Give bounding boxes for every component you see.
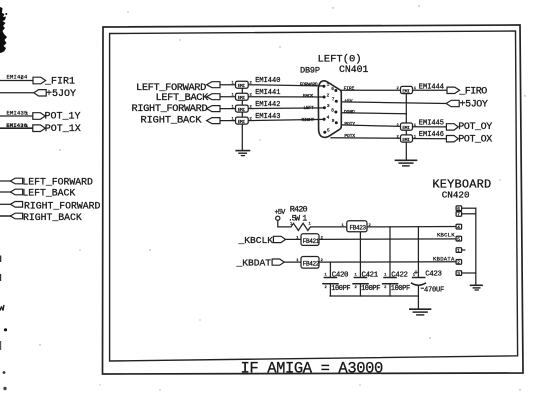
svg-text:3: 3 [327, 104, 330, 109]
svg-text:EMI: EMI [402, 137, 410, 143]
svg-text:2: 2 [325, 286, 328, 290]
svg-text:RIGHT_FORWARD: RIGHT_FORWARD [132, 103, 208, 115]
svg-text:_FIR1: _FIR1 [44, 76, 75, 87]
svg-text:POT_OX: POT_OX [458, 134, 492, 145]
svg-text:2: 2 [327, 93, 330, 98]
svg-text:EMI: EMI [402, 88, 410, 94]
svg-text:POT_OY: POT_OY [458, 122, 492, 133]
svg-text:RIGHT_BACK: RIGHT_BACK [23, 212, 82, 223]
svg-text:RIGHT_FORWARD: RIGHT_FORWARD [24, 200, 101, 211]
svg-text:RIGHT: RIGHT [302, 117, 315, 123]
svg-text:POT_1X: POT_1X [45, 124, 81, 135]
svg-text:4: 4 [327, 116, 330, 121]
svg-text:1: 1 [457, 248, 460, 254]
svg-text:POTY: POTY [344, 121, 355, 127]
svg-text:KBDATA: KBDATA [433, 255, 455, 262]
svg-text:100PF: 100PF [391, 285, 410, 293]
svg-text:LEFT: LEFT [304, 105, 315, 111]
svg-text:2: 2 [457, 260, 460, 266]
svg-text:FB422: FB422 [303, 261, 320, 268]
svg-text:8: 8 [331, 108, 334, 113]
svg-text:+5V: +5V [275, 209, 287, 217]
svg-text:FB421: FB421 [303, 238, 320, 245]
svg-text:EMI434: EMI434 [7, 73, 29, 80]
svg-text:DGND: DGND [344, 109, 355, 115]
svg-text:+5JOY: +5JOY [460, 100, 488, 111]
svg-text:w: w [0, 304, 5, 315]
svg-text:EMI: EMI [238, 107, 246, 113]
svg-text:2: 2 [355, 286, 358, 290]
svg-text:C423: C423 [425, 270, 441, 278]
svg-text:EMI435: EMI435 [7, 109, 28, 116]
svg-text:KBCLK: KBCLK [437, 232, 455, 239]
svg-text:R420: R420 [290, 205, 308, 215]
svg-text:EMI442: EMI442 [255, 101, 280, 109]
svg-text:LEFT_FORWARD: LEFT_FORWARD [22, 177, 93, 188]
svg-text:6: 6 [331, 87, 334, 92]
svg-text:1: 1 [309, 223, 312, 227]
svg-text:EMI: EMI [238, 95, 246, 101]
svg-text:_KBCLK: _KBCLK [238, 235, 274, 246]
svg-text:EMI: EMI [402, 125, 410, 131]
svg-text:1: 1 [327, 83, 330, 88]
svg-text:100PF: 100PF [361, 285, 380, 293]
svg-text:+5V: +5V [344, 98, 352, 104]
svg-text:4: 4 [457, 224, 460, 230]
svg-text:IF AMIGA = A3000: IF AMIGA = A3000 [241, 359, 384, 377]
svg-text:+5JOY: +5JOY [46, 89, 76, 100]
svg-text:LEFT_BACK: LEFT_BACK [22, 188, 75, 199]
svg-text:EMI440: EMI440 [255, 77, 280, 85]
svg-text:C420: C420 [332, 271, 348, 279]
svg-text:EMI445: EMI445 [419, 119, 444, 127]
svg-text:EMI: EMI [238, 119, 246, 125]
svg-text:EMI443: EMI443 [255, 113, 280, 121]
svg-text:EMI: EMI [238, 83, 246, 89]
svg-text:CN420: CN420 [442, 190, 470, 201]
svg-text:FIRE: FIRE [344, 86, 355, 92]
svg-text:FB423: FB423 [350, 225, 367, 232]
svg-text:_FIRO: _FIRO [458, 86, 487, 97]
svg-text:BACK: BACK [303, 93, 314, 99]
svg-text:FORWARD: FORWARD [300, 81, 318, 87]
svg-text:POTX: POTX [344, 133, 355, 139]
svg-text:EMI441: EMI441 [255, 89, 280, 97]
svg-text:5: 5 [327, 129, 330, 134]
svg-text:6: 6 [457, 206, 460, 212]
svg-text:7: 7 [332, 98, 335, 103]
svg-text:9: 9 [332, 119, 335, 124]
svg-text:5: 5 [457, 236, 460, 242]
svg-text:EMI436: EMI436 [6, 122, 27, 129]
svg-text:POT_1Y: POT_1Y [45, 112, 81, 123]
svg-text:_KBDAT: _KBDAT [236, 257, 272, 268]
svg-text:RIGHT_BACK: RIGHT_BACK [141, 114, 203, 126]
svg-text:EMI444: EMI444 [419, 84, 444, 92]
svg-text:3: 3 [457, 271, 460, 277]
svg-text:2: 2 [384, 286, 387, 290]
svg-text:C422: C422 [391, 271, 407, 279]
svg-text:CN401: CN401 [339, 64, 369, 75]
svg-text:100PF: 100PF [331, 285, 350, 293]
svg-text:7: 7 [457, 212, 460, 218]
svg-text:EMI446: EMI446 [419, 131, 444, 139]
svg-text:DB9P: DB9P [300, 66, 320, 76]
svg-text:C421: C421 [362, 271, 379, 279]
svg-text:470UF: 470UF [424, 286, 444, 294]
